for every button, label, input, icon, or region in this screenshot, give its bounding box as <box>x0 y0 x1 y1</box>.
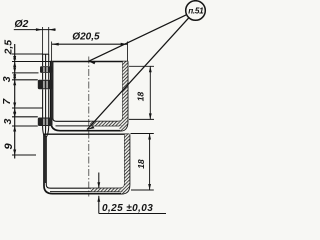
svg-text:2,5: 2,5 <box>2 40 14 56</box>
svg-text:п.51: п.51 <box>188 7 204 16</box>
svg-text:0,25 ±0,03: 0,25 ±0,03 <box>102 203 153 214</box>
svg-text:Ø20,5: Ø20,5 <box>72 31 100 42</box>
svg-text:18: 18 <box>136 92 146 102</box>
svg-text:3: 3 <box>1 76 13 82</box>
svg-text:9: 9 <box>3 143 15 150</box>
svg-text:18: 18 <box>136 159 146 169</box>
svg-text:3: 3 <box>2 119 14 125</box>
svg-text:Ø2: Ø2 <box>14 18 28 30</box>
